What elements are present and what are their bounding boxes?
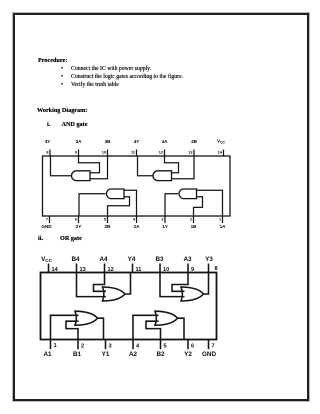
svg-text:B3: B3 <box>155 256 164 263</box>
svg-text:2: 2 <box>190 217 192 221</box>
heading Working Diagram: <box>37 107 87 114</box>
svg-text:Y4: Y4 <box>128 256 136 263</box>
wire A4 input (pin 12 jog to gate4 upper input) <box>94 273 107 292</box>
svg-text:4B: 4B <box>191 139 198 144</box>
pin 13 (B4) stub <box>76 264 78 273</box>
list item ii. OR gate <box>38 235 43 242</box>
wire 1Y output (gate1 nose to pin 3) <box>165 194 178 216</box>
wire A3 input (pin 9 jog to gate3 upper input) <box>172 273 188 292</box>
svg-text:1A: 1A <box>220 224 227 229</box>
svg-text:2Y: 2Y <box>76 224 82 229</box>
svg-text:11: 11 <box>131 151 135 155</box>
wire 3Y output (pin 8 to gate3 nose) <box>51 156 72 176</box>
svg-text:13: 13 <box>188 151 192 155</box>
AND gate U1 gate2 (bottom-left, faces left) <box>106 189 124 199</box>
U2 top pin name labels VCC B4 A4 Y4 B3 A3 Y3 <box>41 256 213 263</box>
U1 bottom pin name labels GND 2Y 2B 2A 1Y 1B 1A <box>41 224 226 229</box>
wire 1A input (pin 1 to gate1 upper input) <box>197 190 223 216</box>
pin 4 (A2) stub <box>132 340 134 350</box>
wire 2B input (pin 5 under-route to gate2 lower input) <box>108 197 130 216</box>
wire 1B input (pin 2 under-route to gate1 lower input) <box>194 197 203 216</box>
wire Y2 output (gate2 tip to pin 6) <box>177 318 184 339</box>
wire B3 input (pin 10 to gate3 lower input) <box>160 273 185 297</box>
heading Procedure: <box>38 57 67 64</box>
wire A2 input (pin 4 to gate2 upper input) <box>133 315 159 339</box>
svg-text:4Y: 4Y <box>134 139 140 144</box>
wire 3A input (pin 9 over-route to gate3 upper input) <box>79 156 100 173</box>
IC U1 7408 body <box>43 156 231 216</box>
svg-text:2A: 2A <box>134 224 141 229</box>
svg-text:B1: B1 <box>73 351 82 358</box>
AND gate U1 gate4 (top-right, faces left) <box>153 171 172 181</box>
OR gate U2 gate1 (bottom-left, faces right) <box>75 311 98 325</box>
pin 2 (B1) stub <box>77 340 79 350</box>
bullet 1 <box>61 65 63 72</box>
svg-text:GND: GND <box>202 351 216 358</box>
pin 11 (4Y) stub <box>136 150 138 157</box>
bullet 2 <box>61 73 63 80</box>
pin 3 (Y1) stub <box>105 340 107 350</box>
svg-text:2: 2 <box>81 343 84 349</box>
pin 6 (Y2) stub <box>187 340 189 350</box>
svg-text:Y1: Y1 <box>102 351 110 358</box>
svg-text:13: 13 <box>80 267 86 273</box>
svg-text:B4: B4 <box>71 256 80 263</box>
svg-text:A2: A2 <box>129 351 138 358</box>
pin 7 (GND) stub <box>208 340 210 350</box>
AND gate U1 gate3 (top-left, faces left) <box>72 171 91 181</box>
svg-text:6: 6 <box>75 217 77 221</box>
svg-text:VCC: VCC <box>217 139 226 145</box>
pin 5 (2B) stub <box>107 216 109 223</box>
bullet 3 <box>61 81 63 88</box>
pin 12 (A4) stub <box>104 264 106 273</box>
pin 10 (3B) stub <box>107 150 109 157</box>
wire A1 input (pin 1 to gate1 upper input) <box>51 315 79 339</box>
svg-text:VCC: VCC <box>41 256 53 263</box>
svg-text:2B: 2B <box>105 224 112 229</box>
wire B4 input (pin 13 to gate4 lower input) <box>77 273 107 297</box>
U2 pin number labels bottom row 1..7 <box>54 343 215 350</box>
svg-text:3: 3 <box>161 217 163 221</box>
wire Y4 output (gate4 tip to pin 11) <box>125 273 131 295</box>
svg-text:8: 8 <box>46 151 48 155</box>
svg-text:5: 5 <box>104 217 106 221</box>
svg-text:4A: 4A <box>162 139 169 144</box>
wire Y3 output (gate3 tip to pin 8) <box>203 273 208 295</box>
U1 top pin name labels 3Y 3A 3B 4Y 4A 4B Vcc <box>45 139 226 145</box>
pin 4 (2A) stub <box>136 216 138 223</box>
AND gate U1 gate1 (bottom-right, faces left) <box>179 189 197 199</box>
svg-text:14: 14 <box>218 151 223 155</box>
pin 10 (B3) stub <box>159 264 161 273</box>
svg-text:1: 1 <box>219 217 221 221</box>
svg-text:4: 4 <box>133 217 136 221</box>
pin 6 (2Y) stub <box>78 216 80 223</box>
pin 14 (Vcc) stub <box>223 150 225 157</box>
svg-text:9: 9 <box>191 267 194 273</box>
pin 11 (Y4) stub <box>132 264 134 273</box>
U2 bottom pin name labels A1 B1 Y1 A2 B2 Y2 GND <box>43 351 216 358</box>
svg-text:GND: GND <box>41 224 52 229</box>
pin 9 (3A) stub <box>78 150 80 157</box>
svg-text:12: 12 <box>108 267 114 273</box>
wire 3B input (pin 10 to gate3 lower input) <box>90 156 108 179</box>
U2 pin number labels top row 14..8 <box>52 266 218 273</box>
svg-text:1: 1 <box>54 343 57 349</box>
svg-text:5: 5 <box>164 343 167 349</box>
wire B1 input (pin 2 jog to gate1 lower input) <box>66 321 79 339</box>
svg-text:12: 12 <box>159 151 163 155</box>
svg-text:3: 3 <box>109 343 112 349</box>
svg-text:Y2: Y2 <box>184 351 192 358</box>
U1 pin number labels top row 8..14 <box>46 151 223 155</box>
svg-text:8: 8 <box>215 266 218 272</box>
pin 8 (Y3) stub <box>208 264 210 273</box>
pin 14 (VCC) stub <box>48 264 50 273</box>
OR gate U2 gate2 (bottom-right, faces right) <box>155 311 178 325</box>
svg-text:9: 9 <box>75 151 77 155</box>
svg-text:6: 6 <box>191 343 194 349</box>
pin 5 (B2) stub <box>160 340 162 350</box>
svg-text:A3: A3 <box>183 256 192 263</box>
OR gate U2 gate4 (top-left, faces right) <box>103 287 126 301</box>
svg-text:A4: A4 <box>99 256 108 263</box>
svg-text:11: 11 <box>136 267 142 273</box>
svg-text:14: 14 <box>52 267 59 273</box>
pin 1 (1A) stub <box>222 216 224 223</box>
pin 13 (4B) stub <box>193 150 195 157</box>
pin 3 (1Y) stub <box>164 216 166 223</box>
svg-text:10: 10 <box>163 267 169 273</box>
wire 2A input (pin 4 to gate2 upper input) <box>124 190 137 216</box>
wire Y1 output (gate1 tip to pin 3) <box>97 318 103 339</box>
wire B2 input (pin 5 jog to gate2 lower input) <box>146 321 161 339</box>
svg-text:3B: 3B <box>105 139 112 144</box>
svg-text:3A: 3A <box>76 139 83 144</box>
wire 2Y output (gate2 nose to pin 6) <box>79 194 106 216</box>
pin 7 (GND) stub <box>49 216 51 223</box>
svg-text:B2: B2 <box>156 351 165 358</box>
pin 9 (A3) stub <box>187 264 189 273</box>
wire 4B input (pin 13 to gate4 lower input) <box>172 156 195 179</box>
svg-text:7: 7 <box>212 343 215 349</box>
svg-text:7: 7 <box>46 217 48 221</box>
svg-text:10: 10 <box>102 151 106 155</box>
wire 4A input (pin 12 over-route to gate4 upper input) <box>165 156 179 173</box>
pin 12 (4A) stub <box>164 150 166 157</box>
svg-text:A1: A1 <box>43 351 52 358</box>
pin 1 (A1) stub <box>50 340 52 350</box>
svg-text:Y3: Y3 <box>205 256 213 263</box>
svg-text:3Y: 3Y <box>45 139 51 144</box>
pin 8 (3Y) stub <box>49 150 51 157</box>
svg-text:4: 4 <box>136 343 140 349</box>
list item i. AND gate <box>47 121 50 128</box>
U1 pin number labels bottom row 7..1 <box>46 217 221 221</box>
IC U2 7432 body <box>41 273 217 340</box>
svg-text:1Y: 1Y <box>162 224 168 229</box>
OR gate U2 gate3 (top-right, faces right) <box>181 287 204 301</box>
svg-text:1B: 1B <box>191 224 198 229</box>
wire 4Y output (pin 11 to gate4 nose) <box>138 156 154 176</box>
pin 2 (1B) stub <box>193 216 195 223</box>
